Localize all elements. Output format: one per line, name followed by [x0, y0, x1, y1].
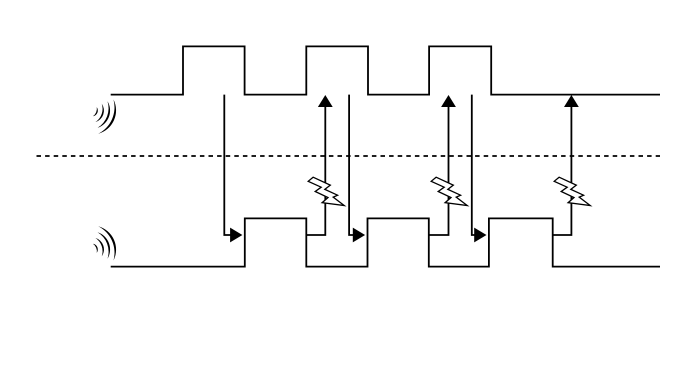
lightning bolt 2 (reflection): [431, 177, 467, 205]
down arrow 3 (transmit delay): [472, 95, 487, 243]
down arrow 2 (transmit delay): [349, 95, 365, 243]
sound waves icon top transducer: [93, 100, 116, 134]
lightning bolt 3 (reflection): [554, 177, 590, 205]
up arrow 3 (echo): [553, 95, 579, 235]
sound waves icon bottom transducer: [93, 226, 116, 260]
interface dashed line: [37, 155, 661, 157]
lightning bolt 1 (reflection): [308, 177, 344, 205]
bottom waveform (received pulses): [111, 218, 660, 266]
up arrow 2 (echo): [429, 95, 456, 235]
up arrow 1 (echo): [306, 95, 332, 235]
down arrow 1 (transmit delay): [224, 95, 242, 243]
top waveform (transmitted pulses): [111, 46, 660, 94]
